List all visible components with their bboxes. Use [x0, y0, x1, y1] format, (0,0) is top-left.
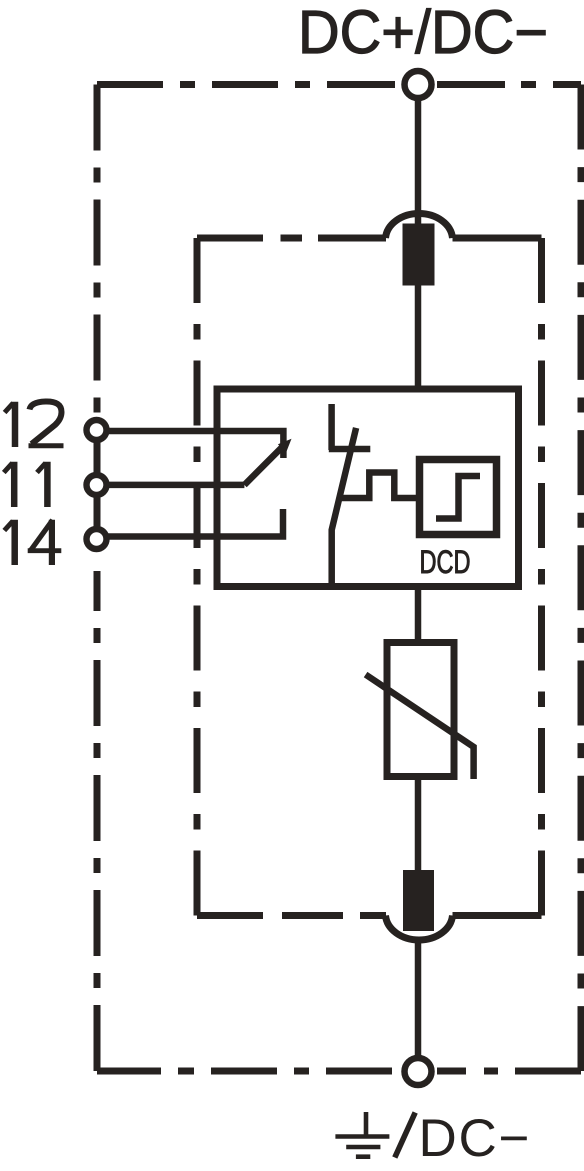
wire contact 11 — [106, 482, 244, 489]
wire bottom arc to bottom terminal — [415, 941, 422, 1058]
outer border top — [97, 81, 581, 88]
terminal earth/DC- circle — [405, 1058, 432, 1085]
outer border bottom — [97, 1068, 581, 1075]
top electrode block — [403, 224, 435, 286]
disconnect switch upper lead — [328, 404, 335, 450]
wire top terminal to top electrode — [415, 98, 422, 226]
varistor diagonal stroke — [366, 675, 474, 779]
inner border bottom-left dash 3 — [360, 912, 386, 919]
inner border top-left dash 2 — [318, 235, 386, 242]
changeover blade from 11 — [244, 445, 284, 485]
svg-text:DCD: DCD — [420, 544, 471, 580]
terminal 14 circle — [87, 529, 107, 549]
wire contact 12 — [106, 431, 283, 458]
bottom electrode block — [403, 870, 434, 931]
disconnect switch contact bar — [329, 446, 371, 453]
varistor body — [387, 643, 454, 777]
inner border right — [538, 238, 545, 916]
ground symbol — [335, 1112, 389, 1157]
wire DCD box to varistor — [415, 587, 422, 645]
inner border bottom-left dash 1 — [197, 912, 263, 919]
terminal 12 circle — [87, 420, 107, 440]
label /DC- slash — [395, 1113, 415, 1158]
label 12 — [5, 401, 64, 447]
step waveform trigger line — [339, 473, 419, 499]
outer border left solid segment through terminals — [94, 424, 101, 546]
label 14 — [4, 520, 61, 565]
DCD box — [217, 389, 519, 587]
wire top electrode to DCD box — [415, 284, 422, 389]
terminal DC+/DC- circle — [405, 71, 432, 98]
wire contact 14 — [106, 509, 283, 537]
label 11 — [4, 462, 48, 507]
step glyph inside trigger box — [436, 476, 480, 519]
wire varistor to bottom electrode — [415, 776, 422, 872]
outer border left lower — [94, 571, 101, 1071]
outer border right — [578, 85, 584, 1072]
inner border top-left dot — [281, 235, 303, 242]
arrow head of changeover blade — [278, 439, 292, 453]
inner border top-left dash 1 — [197, 235, 263, 242]
inner border left — [194, 238, 201, 916]
trigger logic box — [420, 460, 497, 535]
inner border bottom-right — [453, 912, 542, 919]
outer border left upper — [94, 85, 101, 417]
svg-text:DC−: DC− — [419, 1109, 530, 1168]
inner border bottom-left dash 2 — [282, 912, 343, 919]
arc bump top (spark gap housing) — [386, 214, 453, 238]
inner border top-right — [453, 235, 542, 242]
disconnect switch blade — [332, 428, 356, 587]
terminal 11 circle — [87, 475, 107, 495]
svg-text:DC+/DC−: DC+/DC− — [298, 0, 548, 66]
arc bump bottom (spark gap housing) — [386, 916, 453, 940]
